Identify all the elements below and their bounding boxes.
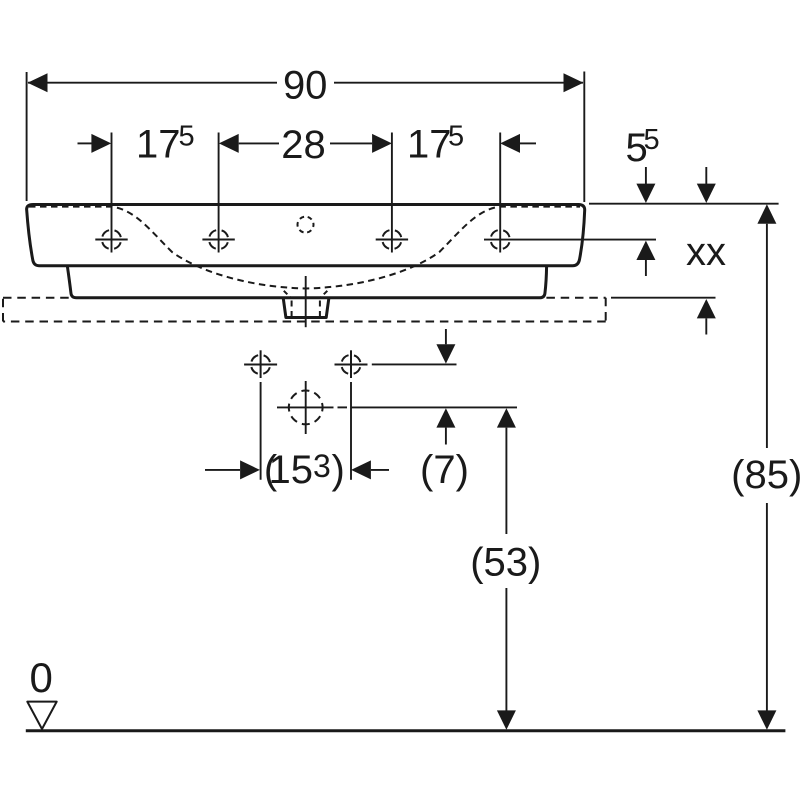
dimension 5.5: up arrow <box>636 241 655 260</box>
svg-text:5: 5 <box>448 121 464 153</box>
drain spigot <box>283 298 329 318</box>
svg-text:): ) <box>332 448 345 492</box>
overflow hole dashed circle <box>298 217 314 233</box>
svg-text:5: 5 <box>179 121 195 153</box>
faucet hole dashed circles <box>102 230 121 249</box>
svg-text:28: 28 <box>281 123 326 167</box>
siphon level line segments <box>277 406 334 408</box>
faucet hole extension lines <box>111 133 113 253</box>
dimension (53) vertical <box>497 408 516 427</box>
faucet hole crosses <box>95 239 127 241</box>
svg-text:(7): (7) <box>420 448 469 492</box>
siphon dashed circle <box>289 391 323 425</box>
dimension xx: up arrow <box>697 299 716 318</box>
datum triangle <box>27 702 56 729</box>
fixing hole left <box>244 364 277 366</box>
fixing hole right <box>335 364 368 366</box>
dimension (7): up arrow <box>436 408 455 427</box>
floor line <box>26 729 786 732</box>
svg-text:5: 5 <box>644 124 660 156</box>
drain funnel dashed hooks <box>284 291 291 298</box>
dimension 5.5: down arrow <box>645 167 647 184</box>
xx leader line bottom <box>611 297 716 299</box>
dimension (85) vertical <box>757 204 776 223</box>
dimension 90: line and arrows <box>28 82 277 84</box>
fixing hole extension lines down <box>260 382 262 480</box>
top edge extension line to right <box>589 203 779 205</box>
svg-text:xx: xx <box>686 230 726 274</box>
dimension row 17.5 / 28 / 17.5 <box>78 142 93 144</box>
apron (lower body) <box>67 266 546 298</box>
svg-text:(53): (53) <box>470 541 541 585</box>
basin body outline <box>27 205 585 266</box>
svg-text:17: 17 <box>136 123 181 167</box>
svg-text:1: 1 <box>269 448 291 492</box>
drain inner dashed walls <box>291 301 293 317</box>
dimension (15.3): arrows <box>205 469 240 471</box>
dimension (7): down arrow <box>445 329 447 344</box>
siphon centerline vertical <box>305 381 307 434</box>
svg-text:(85): (85) <box>731 453 800 497</box>
svg-text:17: 17 <box>407 123 452 167</box>
svg-text:90: 90 <box>283 63 328 107</box>
drain centerline <box>305 276 307 327</box>
dimension xx: down arrow <box>705 167 707 184</box>
dimension 90: extension lines <box>26 72 28 201</box>
fixing hole level line <box>372 363 457 365</box>
svg-text:3: 3 <box>313 448 331 484</box>
bowl rim dashed curve <box>29 207 580 289</box>
svg-text:0: 0 <box>30 654 53 701</box>
dashed wall-bracket rectangle <box>3 298 606 322</box>
xx leader line top (faucet height) <box>484 239 656 241</box>
svg-text:5: 5 <box>291 448 313 492</box>
